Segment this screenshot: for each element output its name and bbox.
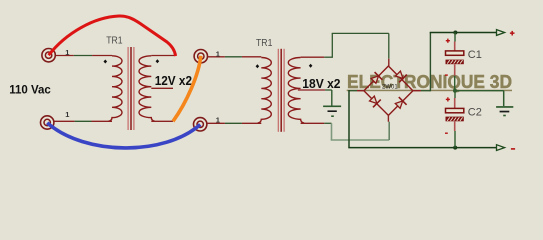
wire terminal to T2 primary top	[208, 56, 262, 58]
wire C2 top pin	[454, 91, 456, 98]
secondary center tap pin	[151, 87, 173, 89]
svg-text:110 Vac: 110 Vac	[9, 82, 51, 96]
wire mid branch to ground	[455, 91, 504, 106]
wire orange terminal top-right to TR1 secondary bottom	[173, 56, 201, 122]
transformer TR1 (second)	[256, 49, 326, 132]
wire T2 secondary top to bridge (AC1)	[324, 33, 389, 58]
wire bridge + output to top rail	[421, 33, 497, 92]
junction bottom rail	[453, 146, 457, 150]
primary winding	[258, 58, 272, 123]
junction top rail	[453, 31, 457, 35]
wire C1 top pin	[454, 33, 456, 42]
svg-text:1: 1	[65, 48, 69, 57]
transformer TR1 (first)	[104, 47, 176, 130]
secondary winding	[139, 56, 155, 121]
arrow terminal + output	[497, 30, 505, 36]
wire bridge - output to bottom rail	[348, 90, 496, 148]
diode D3 bottom-left	[368, 95, 381, 108]
svg-text:12V x2: 12V x2	[155, 74, 192, 88]
pin stub bottom	[387, 115, 389, 122]
terminal bottom-right	[194, 118, 207, 131]
pin stub left	[357, 90, 365, 92]
ground (output mid)	[496, 106, 513, 116]
svg-text:18V x2: 18V x2	[302, 77, 340, 91]
svg-text:2W01: 2W01	[382, 84, 398, 90]
polarity diamond primary	[256, 64, 260, 68]
svg-text:C2: C2	[468, 106, 482, 118]
svg-text:C1: C1	[468, 49, 482, 61]
junction mid	[453, 89, 457, 93]
svg-text:TR1: TR1	[256, 38, 273, 49]
core	[277, 49, 279, 132]
terminal P2 (110Vac bottom)	[41, 116, 54, 129]
wire C2 bottom pin	[454, 121, 456, 131]
label - (bottom right)	[511, 148, 515, 150]
wire C1 bottom pin	[454, 64, 456, 75]
secondary center tap pin	[298, 89, 325, 91]
svg-text:1: 1	[216, 115, 220, 124]
terminal top-right	[194, 50, 207, 63]
wire T2 secondary bottom to bridge (AC2)	[324, 122, 389, 140]
wire terminal to T2 primary bottom	[207, 122, 261, 124]
svg-text:1: 1	[65, 110, 69, 119]
diode D4 bottom-right	[394, 97, 407, 110]
watermark ELECTRONIQUE 3D	[347, 72, 512, 92]
ground (center tap)	[323, 106, 341, 118]
polarity diamond secondary	[156, 59, 160, 63]
wire terminal to T1 primary bottom	[47, 120, 112, 122]
capacitor C1	[446, 51, 464, 64]
secondary bottom pin	[301, 122, 325, 124]
capacitor C2	[446, 108, 464, 121]
primary winding	[108, 56, 122, 121]
pin stub top	[388, 59, 390, 67]
secondary top pin	[151, 55, 175, 57]
diamond outline	[364, 66, 413, 115]
diode D1 top-left	[370, 72, 383, 85]
pin stub right	[412, 90, 421, 92]
secondary top pin	[301, 56, 325, 58]
plus label C2	[446, 97, 450, 101]
diode D2 top-right	[394, 70, 407, 83]
wire blue 110Vac to terminal bottom-right	[47, 123, 200, 148]
svg-text:1: 1	[216, 49, 220, 58]
minus label C2	[445, 133, 448, 134]
plus label C1	[446, 39, 450, 43]
svg-text:TR1: TR1	[106, 36, 123, 47]
wire red 110Vac to TR1 secondary top	[49, 16, 176, 56]
terminal P1 (110Vac top)	[42, 49, 55, 62]
arrow terminal - output	[497, 145, 505, 151]
wire terminal to T1 primary top	[49, 55, 112, 57]
wire T2 center tap to ground	[325, 90, 332, 106]
minus label C1	[445, 74, 448, 75]
secondary winding	[288, 58, 304, 123]
bridge rectifier	[357, 59, 421, 122]
polarity diamond secondary	[309, 64, 313, 68]
polarity diamond primary	[104, 60, 108, 64]
label + (top right)	[510, 31, 515, 36]
secondary bottom pin	[151, 120, 173, 122]
core	[127, 47, 129, 130]
